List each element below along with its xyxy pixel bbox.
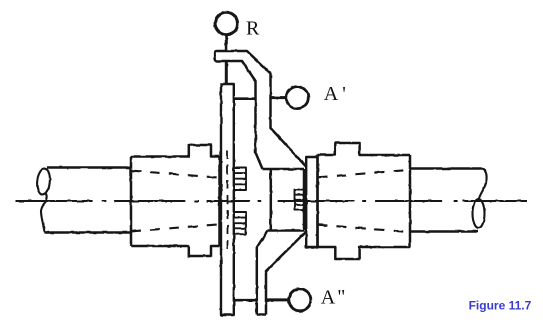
indicator R circle (215, 12, 237, 34)
svg-text:": " (337, 286, 345, 308)
bolt B2 lower (234, 212, 246, 234)
right shaft (410, 169, 482, 232)
left shaft break (36, 168, 51, 233)
bracket arm (215, 51, 306, 169)
left shaft (44, 168, 131, 233)
indicator A' circle (286, 87, 308, 109)
right hub (318, 143, 411, 259)
spider block (263, 169, 305, 231)
caption Figure 11.7 (469, 299, 532, 313)
left plate hidden line (227, 150, 229, 250)
left flange plate (221, 84, 234, 315)
right hub taper hidden lines (318, 170, 410, 232)
label A'' (321, 286, 346, 309)
R stem upper (225, 35, 228, 50)
lower connector rod (234, 299, 257, 302)
lower arm (257, 231, 306, 315)
indicator A'' circle (289, 289, 311, 311)
indicator A'' stub (266, 298, 289, 301)
right shaft break (473, 169, 487, 228)
label R (246, 18, 260, 40)
label A' (324, 83, 346, 105)
svg-text:A: A (324, 83, 339, 105)
svg-text:': ' (342, 83, 346, 105)
svg-text:A: A (321, 287, 336, 309)
svg-text:Figure 11.7: Figure 11.7 (469, 299, 532, 313)
bolt B1 upper (234, 168, 246, 191)
R stem lower (225, 61, 228, 84)
right flange plate (306, 157, 317, 248)
centerline (16, 200, 528, 202)
left hub (131, 145, 220, 256)
indicator A' stub (272, 96, 287, 99)
upper connector rod (234, 97, 256, 100)
left hub taper hidden lines (131, 171, 219, 232)
svg-text:R: R (246, 18, 260, 40)
bolt B3 center (295, 190, 305, 211)
